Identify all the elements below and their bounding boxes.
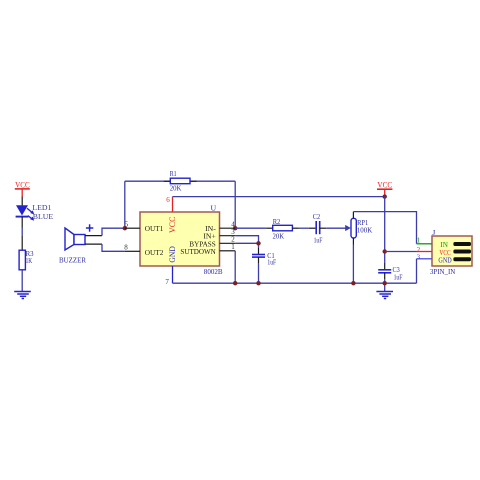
svg-text:R1: R1 — [170, 169, 177, 178]
junction IN-/R1 — [233, 226, 237, 230]
svg-text:OUT2: OUT2 — [145, 248, 164, 257]
svg-text:VCC: VCC — [377, 181, 392, 190]
svg-text:3: 3 — [417, 253, 421, 261]
junction rail/C1 — [256, 281, 260, 285]
ground (left) — [14, 292, 31, 299]
svg-text:1uF: 1uF — [394, 273, 403, 282]
resistor R2 — [273, 217, 293, 240]
capacitor C1 — [252, 251, 277, 267]
junction rail/RP1 — [351, 281, 355, 285]
wire C1 to ground rail — [258, 257, 260, 264]
wire R2 to C2 — [292, 227, 299, 229]
pin 2 BYPASS — [220, 242, 236, 244]
pin 6 VCC (top) — [172, 197, 174, 212]
svg-text:7: 7 — [165, 278, 169, 286]
svg-text:GND: GND — [438, 256, 451, 264]
wire RP1 top to connector IN — [352, 212, 354, 219]
connector pin 3 GND — [417, 258, 433, 260]
svg-text:OUT1: OUT1 — [145, 224, 164, 233]
junction VCC vertical / connector VCC — [383, 249, 387, 253]
svg-text:1: 1 — [231, 243, 235, 251]
svg-text:J: J — [432, 228, 435, 237]
op-amp U (8002B audio amplifier) body — [140, 204, 223, 277]
pin 7 GND (bottom) — [172, 266, 174, 283]
buzzer pin bottom — [85, 243, 102, 245]
svg-text:1K: 1K — [26, 256, 33, 265]
LED LED1 — [16, 205, 35, 220]
resistor R3 — [19, 249, 34, 270]
connector J 3PIN_IN body — [430, 228, 472, 276]
wire SUTDOWN pin1 down to ground rail — [234, 251, 236, 283]
resistor R1 — [170, 169, 190, 192]
svg-text:5: 5 — [125, 221, 129, 229]
wire buzzer- to OUT2 — [102, 244, 125, 251]
junction OUT1/R1 — [123, 226, 127, 230]
wire connector GND to rail — [416, 259, 418, 283]
wire R3 to ground — [21, 270, 23, 291]
capacitor C3 — [378, 265, 403, 281]
svg-text:R2: R2 — [273, 217, 281, 226]
wire VCC net pin6 to VCC flag — [173, 196, 385, 198]
svg-text:VCC: VCC — [168, 216, 177, 233]
junction pin2/pin3/C1 — [256, 241, 260, 245]
pin 8 OUT2 — [125, 250, 140, 252]
svg-text:20K: 20K — [273, 232, 285, 241]
wire OUT1 up to R1 loop — [124, 181, 126, 228]
svg-text:1uF: 1uF — [267, 258, 276, 267]
svg-text:SUTDOWN: SUTDOWN — [180, 247, 216, 256]
ground rail (bottom) — [173, 282, 417, 284]
LED D1 pin (anode wire stub) — [21, 197, 23, 206]
pin 5 OUT1 — [125, 227, 140, 229]
wire C3 to ground — [384, 273, 386, 280]
junction rail/C3 — [383, 281, 387, 285]
svg-text:BLUE: BLUE — [33, 212, 54, 221]
wire LED to R3 — [21, 228, 23, 237]
svg-text:6: 6 — [166, 196, 170, 204]
buzzer plus polarity mark — [86, 224, 93, 231]
LED D1 cathode pin — [21, 217, 23, 228]
pin 3 IN+ — [220, 235, 236, 237]
svg-text:BUZZER: BUZZER — [59, 255, 87, 264]
wire RP1 bottom to ground rail — [352, 238, 354, 245]
svg-text:100K: 100K — [357, 226, 373, 235]
svg-text:U: U — [211, 204, 217, 213]
buzzer LS (speaker symbol) — [65, 228, 85, 250]
wire BYPASS pin2 to C1 — [236, 243, 259, 248]
wire VCC to connector pin2 — [385, 251, 417, 253]
wire buzzer+ to OUT1 — [102, 228, 125, 235]
power flag VCC (left) — [15, 181, 30, 197]
potentiometer RP1 — [351, 218, 373, 238]
pin 4 IN- — [220, 227, 236, 229]
svg-text:1uF: 1uF — [314, 236, 323, 245]
wire C2 to RP1 wiper — [320, 227, 327, 229]
wire R1 loop down to IN- — [234, 181, 236, 228]
svg-text:8002B: 8002B — [204, 267, 223, 276]
wire IN- to R2 — [235, 227, 266, 229]
connector pin 1 IN — [417, 243, 433, 245]
wire IN+ pin3 to BYPASS junction — [236, 236, 259, 244]
pin 1 SUTDOWN — [220, 250, 236, 252]
ground (under C3) — [376, 292, 393, 299]
wire VCC vertical to C3 — [384, 197, 386, 263]
power flag VCC (right) — [377, 181, 393, 197]
buzzer pin top — [85, 235, 102, 237]
svg-text:GND: GND — [168, 246, 177, 262]
RP1 wiper arrow — [345, 225, 351, 231]
svg-text:20K: 20K — [170, 183, 182, 192]
svg-text:C2: C2 — [313, 212, 320, 221]
svg-text:3PIN_IN: 3PIN_IN — [430, 267, 456, 276]
svg-text:1: 1 — [417, 236, 421, 244]
junction rail/pin1 — [233, 281, 237, 285]
capacitor C2 — [313, 212, 323, 245]
junction VCC flag / pin6 wire — [383, 194, 387, 198]
wire R1 loop top — [125, 180, 235, 182]
connector pin 2 VCC — [417, 251, 433, 253]
svg-text:8: 8 — [124, 244, 128, 252]
label LED1 / BLUE — [32, 203, 53, 221]
